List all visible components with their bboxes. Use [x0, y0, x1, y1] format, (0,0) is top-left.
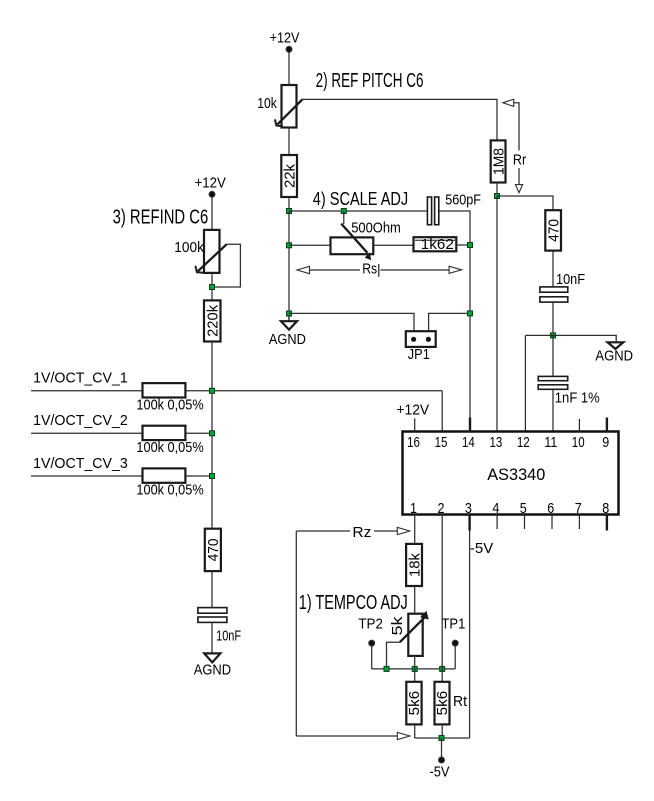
svg-text:Rt: Rt [453, 693, 468, 710]
svg-text:13: 13 [490, 434, 503, 451]
wire 10nF to AGND [211, 623, 213, 654]
node junction mid row left [287, 243, 292, 248]
pin 16 stub [414, 418, 416, 431]
svg-text:5k: 5k [389, 616, 406, 636]
wire CV1 [31, 390, 442, 392]
svg-text:5: 5 [520, 500, 527, 517]
wire CV3 [31, 475, 212, 477]
potentiometer 10k [275, 85, 303, 128]
svg-text:470: 470 [205, 538, 222, 561]
svg-text:+12V: +12V [195, 174, 226, 191]
testpoint TP2 [369, 640, 375, 669]
node junction JP row right rail [468, 311, 473, 316]
node junction 1M8 [495, 194, 500, 199]
svg-text:TP1: TP1 [442, 616, 466, 633]
svg-text:Rs: Rs [362, 260, 377, 277]
wire pot to 22k [288, 128, 290, 156]
resistor 22k [281, 155, 298, 197]
svg-text:4: 4 [492, 500, 499, 517]
supply -5V bottom [430, 738, 450, 780]
trimmer 5k [400, 611, 429, 656]
resistor 100k CV1 [143, 383, 186, 397]
wire 470 to 10nF [211, 571, 213, 607]
svg-text:1V/OCT_CV_2: 1V/OCT_CV_2 [33, 412, 128, 429]
resistor 1k62 [414, 236, 457, 253]
node junction bottom [439, 736, 444, 741]
node junction left rail AGND row [287, 311, 292, 316]
svg-text:1k62: 1k62 [421, 236, 454, 253]
wire pin 12 drop [524, 335, 526, 431]
resistor 18k [406, 544, 423, 586]
svg-text:Rz: Rz [352, 524, 371, 541]
wire trimmer wiper to top rail [343, 211, 345, 224]
wire 1M8 junction down to pin 13 [496, 196, 498, 432]
wire pin 3 to bottom rail [469, 531, 471, 739]
node junction CV3 [210, 474, 215, 479]
wire pin 2 down [441, 515, 443, 682]
wire 1M8 bottom to junction [496, 183, 498, 197]
node junction TP1 row [440, 666, 445, 671]
wire pin 1 to 18k [414, 515, 416, 544]
svg-text:+12V: +12V [396, 402, 429, 419]
wire 22k to scale rail [288, 197, 290, 211]
resistor 5k6 right Rt [434, 682, 451, 725]
pin 14 stub thick [469, 418, 471, 432]
capacitor 10nF right [540, 287, 568, 302]
IC AS3340 U1 [403, 432, 619, 515]
capacitor 1nF [538, 376, 568, 389]
node junction CV1 [210, 388, 215, 393]
pin numbers top [407, 434, 609, 451]
svg-text:1V/OCT_CV_1: 1V/OCT_CV_1 [33, 370, 128, 387]
svg-text:TP2: TP2 [358, 616, 383, 633]
wire tempco row [372, 668, 456, 670]
svg-text:AGND: AGND [194, 661, 232, 678]
label Rs with cursor [362, 260, 379, 277]
supply +12V top [270, 29, 300, 52]
svg-text:2: 2 [438, 500, 445, 517]
svg-text:1nF 1%: 1nF 1% [555, 390, 600, 407]
annotation Rz arrow [296, 527, 410, 534]
svg-text:1) TEMPCO ADJ: 1) TEMPCO ADJ [299, 592, 408, 614]
svg-text:12: 12 [517, 434, 530, 451]
wire wiper to 1M8 top [301, 99, 497, 140]
jumper JP1 [406, 331, 436, 347]
svg-text:3) REFIND C6: 3) REFIND C6 [113, 207, 209, 229]
wire 5k6 right bottom [441, 724, 443, 738]
svg-text:470: 470 [545, 219, 562, 242]
svg-text:10nF: 10nF [556, 271, 585, 288]
annotation arrow bottom rz [296, 732, 410, 739]
wire 18k to trimmer [414, 586, 416, 614]
resistor 470 right [545, 210, 562, 250]
node junction scale rail top [287, 209, 292, 214]
wire Rz left rail [295, 531, 297, 736]
svg-text:9: 9 [602, 434, 609, 451]
svg-text:500Ohm: 500Ohm [351, 220, 401, 237]
svg-text:-5V: -5V [430, 763, 450, 780]
svg-text:22k: 22k [282, 164, 299, 188]
wire trimmer wiper down [387, 642, 400, 669]
annotation arrow Rr top [503, 99, 519, 150]
capacitor 560pF [427, 197, 438, 225]
svg-text:11: 11 [544, 434, 557, 451]
svg-text:10nF: 10nF [216, 628, 241, 645]
svg-text:18k: 18k [406, 553, 423, 577]
node junction wiper row [384, 666, 389, 671]
svg-text:7: 7 [575, 500, 582, 517]
node junction main row [412, 666, 417, 671]
svg-text:8: 8 [602, 500, 609, 517]
svg-text:1M8: 1M8 [490, 148, 507, 175]
svg-text:10k: 10k [257, 95, 277, 112]
wire pot bottom [211, 273, 213, 301]
wire rail 220k to 470 [211, 342, 213, 529]
svg-text:100k 0,05%: 100k 0,05% [136, 396, 203, 413]
ground AGND right [595, 342, 633, 364]
svg-text:AGND: AGND [269, 331, 306, 348]
resistor 470 left [205, 529, 222, 571]
ground AGND left [194, 653, 232, 678]
node junction wiper [210, 285, 215, 290]
svg-text:100k 0,05%: 100k 0,05% [136, 481, 203, 498]
resistor 220k [204, 300, 222, 341]
supply +12V refind [195, 174, 226, 197]
svg-text:Rr: Rr [513, 152, 526, 169]
svg-text:220k: 220k [205, 304, 222, 336]
resistor 100k CV2 [143, 426, 186, 440]
wire +12V to pot R10k [288, 52, 290, 85]
pin 7 stub [578, 515, 580, 530]
svg-text:AGND: AGND [595, 347, 633, 364]
wire CV2 [31, 432, 212, 434]
capacitor 10nF left [198, 608, 227, 623]
svg-text:100k 0,05%: 100k 0,05% [136, 439, 203, 456]
potentiometer 100k [195, 230, 226, 273]
ground AGND scale [269, 315, 306, 348]
wire junction to 1nF [552, 335, 554, 376]
dimension line Rs [297, 266, 462, 273]
resistor 5k6 left [406, 682, 423, 725]
svg-text:2) REF PITCH C6: 2) REF PITCH C6 [316, 70, 424, 92]
annotation arrow Rr bottom [515, 168, 522, 193]
pin 4 stub [496, 515, 498, 530]
resistor 100k CV3 [143, 468, 186, 482]
resistor 1M8 [490, 140, 507, 182]
wire mid row between [373, 244, 413, 246]
node junction CV2 [210, 431, 215, 436]
wire trimmer to 5k6 [414, 656, 416, 682]
svg-text:JP1: JP1 [408, 346, 430, 363]
svg-text:1: 1 [410, 500, 417, 517]
wire 1k62 right to rail [456, 244, 470, 246]
node junction wiper top [341, 209, 346, 214]
wire bottom rail [415, 737, 470, 739]
wire 1nF to pin 11 [552, 389, 554, 431]
wire wiper loop [212, 244, 240, 287]
pin 3 stub thick [468, 515, 470, 531]
wire cap to AGND row [552, 302, 554, 335]
wire junction to 470 [497, 196, 553, 210]
wire 470 to cap 10nF [552, 251, 554, 287]
testpoint TP1 [452, 640, 458, 669]
svg-text:100k: 100k [174, 239, 204, 256]
wire cap right to rail [439, 211, 470, 432]
trimmer 500Ohm [331, 224, 374, 261]
wire AGND row horizontal [525, 335, 616, 342]
pin 8 stub thick [606, 515, 608, 531]
pin 10 stub [578, 419, 580, 432]
svg-text:10: 10 [572, 434, 585, 451]
svg-text:5k6: 5k6 [434, 691, 451, 716]
svg-text:4) SCALE ADJ: 4) SCALE ADJ [313, 188, 408, 209]
wire mid row left [289, 244, 331, 246]
wire +12V to pot 100k [211, 197, 213, 230]
wire left rail scale [288, 211, 290, 321]
svg-text:-5V: -5V [470, 540, 493, 557]
pin 9 stub thick [606, 418, 608, 432]
wire CV1 to pin 15 [441, 391, 443, 432]
pin 5 stub [524, 515, 526, 530]
wire scale top rail [289, 210, 427, 212]
svg-text:560pF: 560pF [445, 192, 481, 209]
svg-text:6: 6 [547, 500, 554, 517]
pin 6 stub [551, 515, 553, 530]
node junction 1k62 right [468, 243, 473, 248]
svg-text:+12V: +12V [270, 29, 300, 46]
svg-text:5k6: 5k6 [406, 691, 423, 716]
svg-text:15: 15 [435, 434, 448, 451]
svg-text:3: 3 [465, 500, 472, 517]
pin numbers bottom [410, 500, 609, 517]
svg-text:1V/OCT_CV_3: 1V/OCT_CV_3 [33, 455, 128, 472]
wire JP1 row left [289, 313, 414, 331]
svg-text:16: 16 [407, 434, 420, 451]
svg-text:AS3340: AS3340 [487, 466, 545, 484]
wire 5k6 bottoms to rail [414, 724, 416, 738]
node junction 10nF bottom [551, 333, 556, 338]
svg-text:14: 14 [462, 434, 475, 451]
wire JP1 row right [429, 313, 470, 331]
